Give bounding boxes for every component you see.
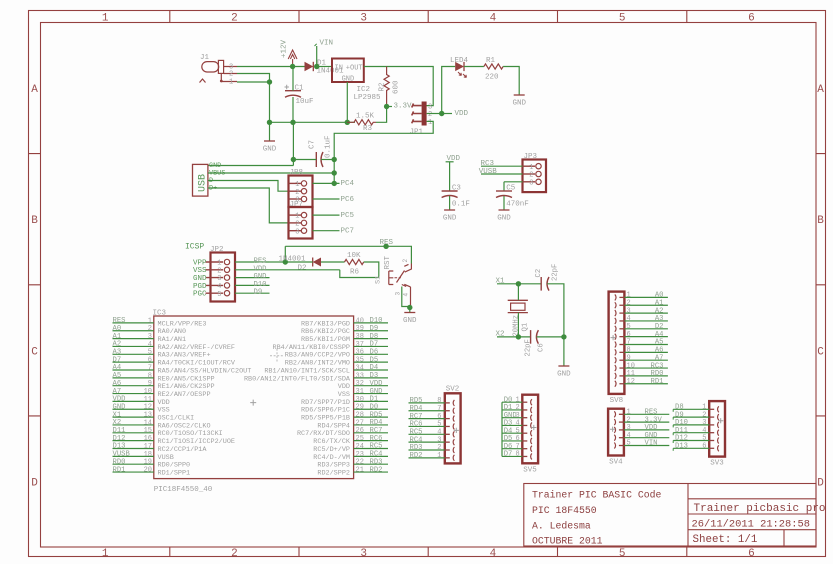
svg-text:31: 31: [356, 388, 364, 396]
push button S1 RST: [375, 255, 412, 307]
svg-text:RA4/T0CKI/C1OUT/RCV: RA4/T0CKI/C1OUT/RCV: [158, 360, 236, 368]
svg-text:35: 35: [356, 357, 364, 365]
svg-text:1: 1: [295, 181, 299, 189]
svg-text:VSS: VSS: [193, 267, 207, 275]
svg-text:ICSP: ICSP: [185, 243, 204, 252]
svg-text:RC7: RC7: [410, 413, 423, 421]
svg-text:D2: D2: [298, 265, 307, 273]
wire JP3 pin2 + net label VUSB: [479, 168, 523, 176]
svg-text:30: 30: [356, 396, 364, 404]
svg-text:A3: A3: [655, 315, 664, 323]
svg-text:2: 2: [529, 172, 533, 180]
svg-text:Trainer picbasic pro: Trainer picbasic pro: [694, 503, 826, 515]
svg-text:PC5: PC5: [341, 212, 355, 220]
wire R1 to GND: [503, 67, 519, 96]
pin header SV5 body: [522, 395, 538, 475]
svg-text:14: 14: [144, 419, 152, 427]
svg-text:RE0/AN5/CK1SPP: RE0/AN5/CK1SPP: [158, 375, 215, 383]
svg-text:RB4/AN11/KBI0/CSSPP: RB4/AN11/KBI0/CSSPP: [273, 344, 351, 352]
svg-text:4: 4: [437, 429, 441, 437]
svg-text:2: 2: [437, 444, 441, 452]
svg-text:PGC: PGC: [193, 291, 207, 299]
svg-text:Q1: Q1: [522, 323, 530, 332]
svg-text:GND: GND: [403, 317, 417, 325]
svg-text:A0: A0: [113, 325, 122, 333]
svg-text:RD4/SPP4: RD4/SPP4: [317, 422, 350, 430]
svg-text:RB0/AN12/INT0/FLT0/SDI/SDA: RB0/AN12/INT0/FLT0/SDI/SDA: [244, 375, 351, 383]
svg-text:37: 37: [356, 341, 364, 349]
svg-text:6: 6: [748, 13, 755, 25]
svg-text:A2: A2: [113, 341, 122, 349]
svg-text:RES: RES: [380, 239, 394, 247]
svg-text:3: 3: [627, 424, 631, 432]
wire JP3 pin3 to C5: [504, 182, 523, 191]
svg-text:4: 4: [702, 427, 706, 435]
wire C6 to gnd column: [537, 336, 564, 338]
svg-text:8: 8: [515, 451, 519, 459]
svg-text:D: D: [817, 477, 824, 489]
wire JP8 pin3 to label RC6: [313, 198, 340, 200]
connector JP3: [523, 153, 547, 192]
wire JP2 pin1 RES net to RST switch: [270, 261, 286, 263]
svg-text:32: 32: [356, 380, 364, 388]
svg-text:3: 3: [217, 275, 221, 283]
junction VIN node: [314, 64, 319, 69]
resistor R3 1.5K: [347, 113, 376, 133]
svg-text:D3: D3: [370, 372, 379, 380]
svg-text:5: 5: [619, 548, 626, 560]
svg-text:PC7: PC7: [341, 228, 355, 236]
wire VDD node up to LED4: [442, 67, 456, 114]
pin header SV8 body: [609, 292, 625, 405]
title block frame: [524, 484, 816, 547]
svg-text:MCLR/VPP/RE3: MCLR/VPP/RE3: [158, 320, 207, 328]
svg-text:D8: D8: [370, 333, 379, 341]
svg-text:A4: A4: [655, 331, 664, 339]
svg-text:2: 2: [217, 267, 221, 275]
svg-text:1: 1: [529, 164, 533, 172]
SV4 pin wires + numbers + net labels: [624, 409, 669, 448]
svg-text:RC5: RC5: [410, 429, 423, 437]
svg-text:RD3: RD3: [410, 444, 423, 452]
svg-text:10: 10: [627, 362, 635, 370]
svg-text:A1: A1: [655, 299, 664, 307]
svg-text:A: A: [817, 84, 824, 96]
svg-text:5: 5: [148, 349, 152, 357]
svg-text:470nF: 470nF: [506, 200, 529, 208]
wire C2 to gnd column: [547, 284, 564, 337]
svg-text:2: 2: [229, 70, 233, 78]
net label 3.3V: [387, 102, 412, 110]
capacitor C5 470nF: [496, 185, 529, 209]
svg-text:SV4: SV4: [609, 459, 623, 467]
svg-text:6: 6: [627, 331, 631, 339]
svg-text:PIC18F4550_40: PIC18F4550_40: [154, 486, 213, 494]
svg-text:1: 1: [437, 452, 441, 460]
svg-text:GND: GND: [497, 215, 511, 223]
svg-text:D2: D2: [655, 323, 664, 331]
svg-text:RB2/AN8/INT2/VMO: RB2/AN8/INT2/VMO: [285, 360, 350, 368]
svg-text:A7: A7: [113, 388, 122, 396]
svg-text:36: 36: [356, 349, 364, 357]
svg-text:3.3V: 3.3V: [394, 102, 413, 110]
pin header SV4 body: [608, 409, 624, 467]
junction 3.3V node: [384, 104, 389, 109]
resistor R6 10K: [345, 252, 364, 276]
svg-text:RD0/SPP0: RD0/SPP0: [158, 462, 191, 470]
svg-text:1.5K: 1.5K: [356, 113, 375, 121]
svg-text:RD2: RD2: [410, 452, 423, 460]
svg-text:JP8: JP8: [290, 169, 304, 177]
svg-text:X2: X2: [113, 419, 122, 427]
title block text: project info: [532, 490, 661, 547]
svg-text:26: 26: [356, 427, 364, 435]
svg-text:24: 24: [356, 443, 364, 451]
svg-text:RD1/SPP1: RD1/SPP1: [158, 469, 191, 477]
svg-text:GND: GND: [113, 403, 126, 411]
wire IC2 GND pin to ground rail: [346, 82, 348, 122]
svg-text:RC5: RC5: [370, 443, 383, 451]
svg-text:D1: D1: [370, 396, 379, 404]
svg-text:8: 8: [627, 347, 631, 355]
svg-text:4: 4: [490, 13, 497, 25]
svg-text:A5: A5: [655, 339, 664, 347]
svg-text:RC4: RC4: [370, 451, 383, 459]
svg-text:RD7/SPP7/P1D: RD7/SPP7/P1D: [301, 399, 350, 407]
svg-text:RB3/AN9/CCP2/VPO: RB3/AN9/CCP2/VPO: [285, 352, 350, 360]
ground (crystal caps): [557, 366, 571, 379]
svg-text:3: 3: [428, 103, 432, 111]
wire crystal gnd column to GND: [563, 337, 565, 366]
ground (power input): [263, 141, 277, 154]
svg-text:22pF: 22pF: [552, 264, 560, 281]
svg-text:IC3: IC3: [153, 310, 167, 318]
svg-text:SV8: SV8: [610, 397, 624, 405]
svg-text:A5: A5: [113, 372, 122, 380]
svg-text:12: 12: [144, 404, 152, 412]
svg-text:8: 8: [148, 372, 152, 380]
svg-text:GND: GND: [512, 100, 526, 108]
svg-text:RD2: RD2: [370, 466, 383, 474]
svg-text:A4: A4: [113, 364, 122, 372]
wire VDD to C3: [449, 162, 451, 191]
ground (LED4/R1): [512, 95, 526, 108]
svg-text:D5: D5: [370, 356, 379, 364]
svg-text:9: 9: [627, 354, 631, 362]
IC3 right pins: wires, net labels, numbers, pin names: [244, 317, 388, 477]
resistor R2 600 (vertical): [379, 67, 401, 107]
svg-text:A0: A0: [655, 292, 664, 300]
svg-text:RE2/AN7/OESPP: RE2/AN7/OESPP: [158, 391, 211, 399]
diode D1 1N4001: [305, 60, 345, 76]
svg-text:2: 2: [627, 299, 631, 307]
svg-text:A6: A6: [655, 347, 664, 355]
connector JP8: [289, 169, 313, 207]
svg-text:4: 4: [490, 548, 497, 560]
svg-text:34: 34: [356, 364, 364, 372]
svg-text:RD4: RD4: [370, 419, 383, 427]
svg-text:15: 15: [144, 427, 152, 435]
svg-text:Trainer PIC BASIC Code: Trainer PIC BASIC Code: [532, 490, 661, 501]
svg-text:RES: RES: [645, 409, 658, 417]
svg-text:1: 1: [702, 404, 706, 412]
svg-text:1: 1: [102, 13, 109, 25]
junction C7 nodes: [291, 157, 296, 162]
svg-text:1: 1: [148, 317, 152, 325]
svg-text:3: 3: [360, 13, 367, 25]
wire C1 top to +12V rail: [292, 67, 294, 91]
svg-text:J1: J1: [200, 54, 210, 62]
LED LED4: [450, 57, 469, 77]
svg-text:VDD: VDD: [158, 399, 170, 407]
wire D1 cathode to IC2 IN: [317, 66, 332, 68]
svg-text:1: 1: [627, 292, 631, 300]
junction VDD node: [439, 111, 444, 116]
svg-text:OCTUBRE 2011: OCTUBRE 2011: [532, 536, 603, 547]
svg-text:4: 4: [627, 432, 631, 440]
svg-text:C: C: [817, 346, 824, 358]
svg-text:PGD: PGD: [193, 283, 207, 291]
svg-text:3: 3: [394, 292, 401, 296]
svg-text:D4: D4: [370, 364, 379, 372]
svg-text:D7: D7: [504, 451, 513, 459]
svg-text:A7: A7: [655, 354, 664, 362]
svg-text:RC5/D+/VP: RC5/D+/VP: [313, 446, 350, 454]
svg-text:R2: R2: [379, 82, 387, 91]
svg-text:VSS: VSS: [338, 391, 350, 399]
svg-text:18: 18: [144, 451, 152, 459]
svg-text:VUSB: VUSB: [479, 168, 498, 176]
wire X1 node to crystal top and C2: [518, 284, 541, 301]
svg-text:D+: D+: [209, 185, 217, 193]
svg-text:28: 28: [356, 412, 364, 420]
svg-text:VUSB: VUSB: [158, 454, 174, 462]
svg-text:GND: GND: [263, 146, 277, 154]
svg-text:D9: D9: [370, 325, 379, 333]
svg-text:RC0/T1OSO/T13CKI: RC0/T1OSO/T13CKI: [158, 430, 223, 438]
svg-text:12: 12: [627, 378, 635, 386]
svg-text:GND: GND: [443, 215, 457, 223]
svg-text:RD3: RD3: [370, 458, 383, 466]
svg-text:RE1/AN6/CK2SPP: RE1/AN6/CK2SPP: [158, 383, 215, 391]
svg-text:JP3: JP3: [524, 153, 538, 161]
wire R3 to 3.3V node: [376, 107, 387, 123]
svg-text:3: 3: [529, 179, 533, 187]
svg-text:D10: D10: [370, 317, 383, 325]
wire JP1 pin1 to C7 node: [334, 121, 433, 159]
svg-text:SV5: SV5: [523, 466, 537, 474]
wire C7 left to GND/JP8 node: [293, 159, 316, 161]
svg-text:RC6: RC6: [370, 435, 383, 443]
svg-text:2: 2: [428, 111, 432, 119]
svg-text:1: 1: [428, 119, 432, 127]
svg-text:23: 23: [356, 451, 364, 459]
svg-text:5: 5: [217, 291, 221, 299]
svg-text:RC7/RX/DT/SDO: RC7/RX/DT/SDO: [297, 430, 350, 438]
capacitor C6 22pF: [525, 330, 546, 356]
svg-text:2: 2: [148, 325, 152, 333]
svg-text:5: 5: [627, 440, 631, 448]
svg-text:+12V: +12V: [281, 39, 289, 58]
svg-text:VSS: VSS: [158, 407, 170, 415]
SV2 pin wires + numbers + net labels: [409, 397, 445, 460]
svg-text:6: 6: [702, 443, 706, 451]
svg-text:RC3: RC3: [651, 362, 664, 370]
svg-text:25: 25: [356, 435, 364, 443]
wire ground rail down to C7/USB-GND node: [292, 122, 294, 165]
svg-text:2: 2: [231, 13, 238, 25]
svg-text:3: 3: [702, 419, 706, 427]
svg-text:RD1: RD1: [651, 378, 664, 386]
SV3 pin wires + numbers + net labels: [673, 404, 709, 451]
svg-text:5: 5: [627, 323, 631, 331]
svg-text:RC6/TX/CK: RC6/TX/CK: [313, 438, 351, 446]
junction S1 gnd node: [407, 305, 412, 310]
ground (C3): [443, 210, 457, 223]
svg-text:22pF: 22pF: [525, 339, 533, 356]
svg-text:20: 20: [144, 466, 152, 474]
svg-text:22: 22: [356, 459, 364, 467]
svg-text:4: 4: [217, 283, 221, 291]
svg-text:9: 9: [148, 380, 152, 388]
wire JP1 pin2 to VDD node: [427, 113, 442, 115]
wire JP8 pin1 to label RC4: [313, 182, 340, 184]
svg-text:10uF: 10uF: [296, 98, 314, 106]
connector J1 (DC power jack): [200, 54, 238, 87]
svg-text:R1: R1: [486, 57, 496, 65]
svg-text:RC7: RC7: [370, 427, 383, 435]
svg-text:C1: C1: [295, 84, 305, 92]
wire J1 pin2/pin1 to ground rail: [237, 74, 270, 123]
svg-text:VPP: VPP: [193, 259, 207, 267]
capacitor C3 0.1uF: [442, 185, 470, 209]
JP2 right wires + net labels: [235, 258, 270, 297]
diode D2 1N4001: [279, 256, 322, 273]
capacitor C2 22pF: [535, 264, 560, 291]
svg-text:220: 220: [485, 73, 499, 81]
svg-text:2: 2: [702, 411, 706, 419]
supply symbol VDD: [446, 155, 461, 163]
svg-text:S1: S1: [375, 276, 383, 284]
svg-text:SV2: SV2: [446, 385, 460, 393]
wire JP7 pin3 to label RC7: [313, 230, 340, 232]
svg-text:RB7/KBI3/PGD: RB7/KBI3/PGD: [301, 320, 350, 328]
wire ground rail stub down to GND symbol: [269, 122, 271, 141]
net label VIN + wire to D1 cathode node: [316, 46, 318, 67]
voltage regulator IC2 LMP965: [332, 59, 381, 103]
frame row letters left/right: [31, 84, 824, 489]
svg-text:2: 2: [295, 189, 299, 197]
svg-text:3: 3: [360, 548, 367, 560]
svg-text:JP2: JP2: [210, 246, 224, 254]
svg-text:GND: GND: [645, 432, 658, 440]
svg-text:600: 600: [393, 80, 401, 94]
svg-text:GND: GND: [254, 273, 267, 281]
svg-text:21: 21: [356, 466, 364, 474]
svg-text:40: 40: [356, 317, 364, 325]
svg-text:RA3/AN3/VREF+: RA3/AN3/VREF+: [158, 352, 211, 360]
svg-text:R6: R6: [350, 269, 360, 277]
svg-text:7: 7: [627, 339, 631, 347]
svg-text:10K: 10K: [347, 252, 361, 260]
pin header SV2 body: [445, 385, 461, 463]
junction +12V / C1 top: [290, 64, 295, 69]
svg-text:RD5: RD5: [370, 411, 383, 419]
svg-text:VDD: VDD: [370, 380, 383, 388]
wire C1 bottom to ground rail: [292, 97, 294, 122]
svg-text:RA1/AN1: RA1/AN1: [158, 336, 187, 344]
microcontroller IC3 PIC18F4550 body: [153, 310, 354, 495]
svg-text:OSC1/CLKI: OSC1/CLKI: [158, 415, 195, 423]
svg-text:D7: D7: [370, 341, 379, 349]
wire S1 pins to GND: [402, 287, 410, 313]
svg-text:JP1: JP1: [410, 129, 424, 137]
wire LED4 to R1: [464, 66, 484, 68]
svg-text:2: 2: [402, 259, 409, 263]
svg-text:VDD: VDD: [338, 383, 350, 391]
wire JP7 pin1 to label RC5: [313, 214, 340, 216]
svg-text:3: 3: [627, 307, 631, 315]
svg-text:RES: RES: [113, 317, 126, 325]
connector JP2 (ICSP header): [206, 246, 236, 302]
svg-text:D8: D8: [675, 404, 684, 412]
svg-text:LED4: LED4: [450, 57, 469, 65]
svg-text:D6: D6: [370, 349, 379, 357]
svg-text:RD5: RD5: [410, 397, 423, 405]
svg-text:PIC 18F4550: PIC 18F4550: [532, 505, 597, 516]
svg-text:6: 6: [748, 548, 755, 560]
svg-text:3: 3: [295, 228, 299, 236]
svg-text:29: 29: [356, 404, 364, 412]
svg-text:6: 6: [148, 357, 152, 365]
svg-text:RES: RES: [254, 258, 267, 266]
svg-text:C6: C6: [538, 343, 546, 352]
svg-text:RC1/T1OSI/ICCP2/UOE: RC1/T1OSI/ICCP2/UOE: [158, 438, 236, 446]
svg-text:PC4: PC4: [341, 180, 355, 188]
svg-text:D: D: [31, 477, 38, 489]
svg-text:VDD: VDD: [645, 424, 658, 432]
svg-text:RA5/AN4/SS/HLVDIN/C2OUT: RA5/AN4/SS/HLVDIN/C2OUT: [158, 367, 252, 375]
svg-text:3.3V: 3.3V: [645, 416, 663, 424]
svg-text:A2: A2: [655, 307, 664, 315]
svg-text:39: 39: [356, 325, 364, 333]
connector USB (X-ish): [193, 164, 209, 196]
svg-text:C5: C5: [506, 185, 516, 193]
frame column numbers top/bottom: [102, 13, 755, 561]
wire X2 node to crystal bottom and C6: [518, 313, 530, 337]
svg-text:RA6/OSC2/CLKO: RA6/OSC2/CLKO: [158, 422, 211, 430]
junction J1 ground node: [267, 79, 272, 84]
supply symbol +12V: [281, 39, 298, 66]
svg-text:RD0: RD0: [651, 370, 664, 378]
SV5 pin wires + numbers + net labels: [502, 396, 522, 458]
svg-text:VUSB: VUSB: [113, 451, 131, 459]
svg-text:1: 1: [295, 213, 299, 221]
svg-text:4: 4: [148, 341, 152, 349]
svg-text:RD2/SPP2: RD2/SPP2: [317, 469, 350, 477]
svg-text:C3: C3: [452, 185, 462, 193]
svg-text:GND: GND: [193, 275, 207, 283]
svg-text:8: 8: [437, 397, 441, 405]
ground rail wire (y=122): [270, 121, 356, 123]
svg-text:LP2985: LP2985: [354, 94, 382, 102]
USB pin names: [209, 162, 225, 193]
svg-text:1: 1: [217, 260, 221, 268]
connector JP1: [410, 102, 433, 137]
svg-text:RD5/SPP5/P1B: RD5/SPP5/P1B: [301, 415, 350, 423]
svg-text:7: 7: [148, 364, 152, 372]
JP2 left pin labels (green): [193, 259, 207, 298]
